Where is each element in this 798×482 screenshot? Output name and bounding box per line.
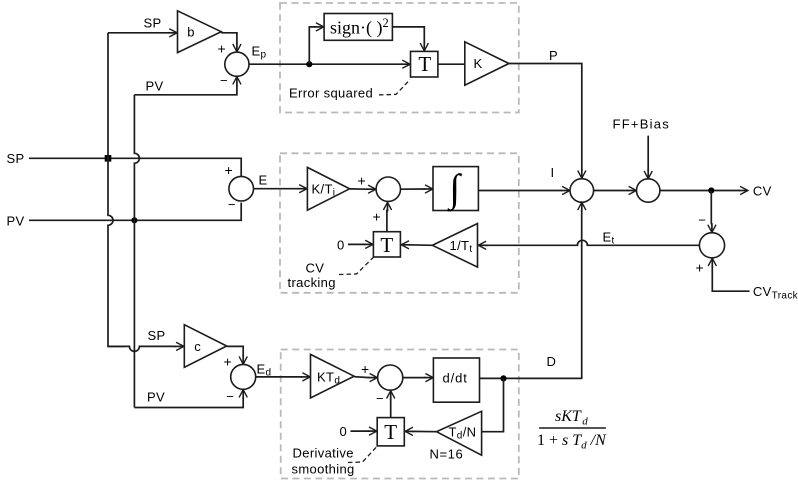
wire SP input rail horizontal	[29, 158, 241, 176]
arrow to CV	[739, 190, 748, 192]
arrow into T2 left	[364, 243, 373, 245]
wire S3 to integrator	[401, 188, 425, 190]
svg-text:T: T	[384, 420, 397, 444]
wire T2 to summer S3 bottom	[386, 210, 388, 232]
wire S4 to summer S5	[594, 190, 629, 192]
wire PV input rail horizontal	[29, 203, 241, 221]
gain triangle 1/Tt (points left)	[432, 224, 477, 268]
wire FF+Bias into summer S5	[647, 136, 649, 171]
wire S5 to CV	[660, 190, 740, 192]
wire 1/Tt to T2	[408, 244, 432, 247]
wire PV branch vertical with hop over SP rail	[134, 95, 139, 408]
svg-text:K/Ti: K/Ti	[312, 182, 336, 199]
wire Et from S6 to 1/Tt with hop over D line	[485, 240, 699, 245]
svg-text:PV: PV	[7, 214, 25, 229]
arrow into summer S7 bottom	[242, 390, 244, 399]
gain triangle K	[465, 42, 509, 85]
arrow into T3 left	[368, 430, 377, 432]
wire SP bottom branch to gain c with hop over PV vertical	[108, 346, 176, 351]
svg-text:T: T	[380, 233, 393, 257]
svg-text:+: +	[224, 354, 233, 370]
junction dot on Ep wire	[306, 61, 312, 67]
svg-text:I: I	[551, 165, 555, 180]
multiplier block T1	[411, 51, 438, 77]
svg-text:SP: SP	[144, 16, 162, 31]
wire d/dt to D line	[480, 377, 582, 380]
wire T3 to summer S8 bottom	[390, 398, 392, 418]
svg-text:0: 0	[340, 424, 348, 439]
svg-text:E: E	[259, 173, 268, 188]
arrow into summer S4 left	[561, 190, 570, 192]
arrow into summer S6 bottom	[711, 258, 713, 267]
svg-text:SP: SP	[7, 151, 25, 166]
wire Ed to gain KTd	[256, 376, 303, 378]
arrow into integrator	[424, 188, 433, 190]
svg-text:+: +	[373, 208, 382, 224]
svg-text:FF+Bias: FF+Bias	[613, 117, 671, 132]
junction dot SP rail / SP branch vertical	[105, 155, 112, 162]
wire gain c to summer S7	[227, 346, 244, 356]
block d/dt	[433, 358, 479, 402]
arrow into gain K/Ti	[298, 188, 307, 190]
gain triangle KTd	[311, 354, 355, 398]
wire derivative feedback down to Td/N	[482, 378, 504, 431]
svg-text:PV: PV	[146, 78, 164, 93]
arrow into summer S1 top	[236, 43, 238, 52]
arrow into T1 top	[423, 42, 425, 51]
svg-text:+: +	[218, 41, 227, 57]
svg-text:1 + s Td /N: 1 + s Td /N	[537, 432, 607, 452]
integrator block	[433, 167, 478, 211]
wire T1 to gain K	[438, 63, 465, 65]
summer S8	[378, 365, 403, 390]
arrow into T1 left	[401, 63, 410, 65]
arrow into summer S5 top	[647, 169, 649, 178]
gain triangle Td/N (points left)	[437, 411, 482, 455]
arrow into summer S4 top	[581, 169, 583, 178]
dashed group box: CV tracking block	[280, 153, 519, 292]
svg-text:CV: CV	[753, 184, 772, 199]
svg-text:SP: SP	[148, 328, 166, 343]
wire 0 into T2	[348, 243, 366, 245]
multiplier block T2	[373, 232, 400, 257]
arrow into summer S7 top	[242, 355, 244, 364]
svg-text:T: T	[418, 52, 431, 76]
wire P to summer S4	[509, 64, 582, 171]
svg-text:+: +	[358, 173, 367, 189]
summer S6 (tracking error)	[699, 233, 724, 258]
junction dot derivative output	[500, 375, 506, 381]
junction dot CV branch	[708, 187, 714, 193]
svg-text:N=16: N=16	[430, 447, 464, 462]
dashed leader CV tracking to T2	[339, 257, 374, 275]
arrow into summer S8 bottom	[390, 391, 392, 400]
svg-text:−: −	[220, 73, 228, 88]
svg-text:smoothing: smoothing	[292, 462, 355, 477]
dashed group box: Error squared block	[280, 3, 519, 113]
multiplier block T3	[377, 418, 404, 446]
arrow into gain KTd	[301, 376, 310, 378]
arrow into 1/Tt right edge	[478, 244, 487, 246]
summer S7 (error Ed)	[231, 364, 256, 389]
wire integrator to summer S4	[478, 190, 562, 192]
wire SP branch vertical with hop over PV rail	[108, 33, 125, 347]
svg-text:d/dt: d/dt	[443, 371, 468, 386]
svg-text:c: c	[194, 339, 201, 354]
svg-text:P: P	[549, 48, 558, 63]
svg-text:Error squared: Error squared	[289, 86, 373, 101]
wire PV branch to summer S1 bottom	[134, 85, 237, 95]
svg-text:−: −	[228, 197, 236, 212]
wire sign-square to T1 top	[392, 27, 424, 44]
wire SP to gain b	[108, 32, 169, 34]
svg-text:−: −	[376, 391, 384, 406]
junction dot PV rail / PV branch vertical	[131, 217, 137, 223]
arrow into summer S3 left	[367, 188, 376, 190]
svg-text:CV: CV	[306, 261, 325, 276]
svg-text:1/Tt: 1/Tt	[450, 238, 473, 255]
dashed group box: Derivative smoothing block	[281, 350, 519, 479]
arrow into summer S1 bottom	[236, 77, 238, 86]
arrow into summer S5 left	[627, 190, 636, 192]
arrow into gain b	[168, 32, 177, 34]
dashed leader Error squared to T1	[379, 79, 410, 95]
svg-text:D: D	[547, 354, 557, 369]
svg-text:Derivative: Derivative	[293, 446, 354, 461]
block sign()^2	[324, 14, 392, 41]
svg-text:+: +	[361, 361, 370, 377]
wire K/Ti to summer S3	[350, 188, 368, 190]
arrow into T3 right	[405, 430, 414, 432]
arrow into sign-square block	[314, 26, 323, 28]
wire Td/N to T3	[412, 430, 436, 432]
svg-text:PV: PV	[147, 390, 165, 405]
svg-text:b: b	[187, 25, 195, 40]
svg-text:+: +	[696, 260, 705, 276]
wire D up to summer S4 bottom	[581, 210, 583, 378]
arrow into summer S4 bottom	[581, 202, 583, 211]
wire S8 to d/dt block	[403, 377, 426, 379]
svg-text:K: K	[474, 56, 483, 71]
arrow into d/dt block	[424, 377, 433, 379]
gain triangle K/Ti	[307, 167, 349, 210]
wire Ep to multiplier T1	[249, 63, 402, 65]
summer S2 (error E)	[229, 176, 254, 201]
svg-text:0: 0	[337, 238, 345, 253]
wire PV bottom branch to summer S7 bottom	[134, 398, 243, 408]
arrow into T2 right	[401, 244, 410, 246]
summer S5 (output)	[637, 179, 660, 202]
wire gain b to summer S1	[221, 33, 237, 44]
arrow into summer S3 bottom	[387, 202, 389, 211]
gain triangle c	[184, 325, 226, 368]
svg-text:tracking: tracking	[288, 275, 336, 290]
svg-text:−: −	[698, 213, 706, 228]
svg-text:sign·( )2: sign·( )2	[330, 16, 389, 39]
wire CVtrack input	[712, 266, 749, 291]
equation fraction bar	[539, 427, 606, 429]
wire CV branch down to summer S6	[710, 191, 712, 225]
arrow into summer S8 left	[368, 377, 377, 379]
arrow into gain c	[175, 345, 184, 347]
wire branch up to sign-square block	[309, 27, 316, 64]
wire 0 into T3	[351, 430, 370, 432]
wire KTd to summer S8	[354, 376, 370, 379]
svg-text:Td/N: Td/N	[449, 425, 477, 442]
svg-text:−: −	[226, 389, 234, 404]
arrow into summer S6 top	[711, 223, 713, 232]
gain triangle b	[178, 11, 222, 53]
summer S1 (error Ep)	[225, 52, 249, 76]
summer S4 (P+I+D)	[570, 179, 594, 203]
summer S3	[376, 177, 400, 201]
dashed leader Derivative smoothing to T3	[348, 446, 377, 462]
svg-text:+: +	[225, 162, 234, 178]
wire E to gain K/Ti	[254, 188, 300, 190]
